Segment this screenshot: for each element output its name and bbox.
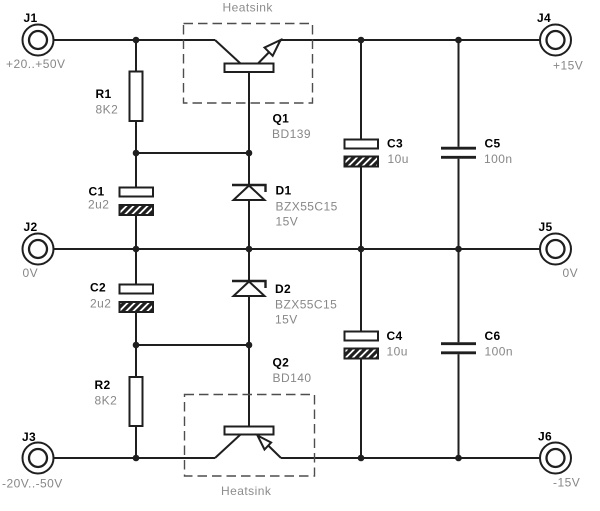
wire C2 top lead <box>135 249 137 285</box>
svg-text:J5: J5 <box>539 220 553 234</box>
svg-text:-20V..-50V: -20V..-50V <box>2 477 63 491</box>
svg-text:0V: 0V <box>23 266 39 280</box>
svg-text:Heatsink: Heatsink <box>221 484 272 498</box>
svg-text:C6: C6 <box>485 329 501 343</box>
svg-text:J2: J2 <box>24 220 38 234</box>
svg-text:BD139: BD139 <box>272 127 311 141</box>
svg-text:8K2: 8K2 <box>95 394 118 408</box>
svg-text:2u2: 2u2 <box>88 198 109 212</box>
wire R2 bottom lead <box>135 426 137 458</box>
svg-text:10u: 10u <box>388 152 409 166</box>
svg-text:BZX55C15: BZX55C15 <box>275 298 337 312</box>
connector J4 <box>540 25 571 56</box>
capacitor C5 <box>441 148 476 157</box>
svg-text:+15V: +15V <box>553 59 583 73</box>
svg-text:8K2: 8K2 <box>96 103 119 117</box>
svg-text:J1: J1 <box>24 11 38 25</box>
svg-text:Q2: Q2 <box>273 356 290 370</box>
capacitor C2 <box>120 285 154 313</box>
node junction dots <box>133 37 462 462</box>
connector J1 <box>23 25 54 56</box>
svg-text:J6: J6 <box>538 430 552 444</box>
wire D1 bottom lead <box>248 200 250 249</box>
svg-text:15V: 15V <box>275 313 298 327</box>
wire C5 top lead <box>458 40 460 147</box>
svg-text:BZX55C15: BZX55C15 <box>276 199 338 213</box>
wire link rail R1 to Q1 base <box>136 152 249 154</box>
svg-text:0V: 0V <box>563 266 579 280</box>
svg-text:J3: J3 <box>22 430 36 444</box>
capacitor C4 <box>345 332 379 359</box>
wire C2 bottom lead <box>135 312 137 345</box>
svg-text:D1: D1 <box>276 183 292 197</box>
svg-text:-15V: -15V <box>553 476 580 490</box>
heatsink box bottom <box>185 395 315 477</box>
connector J6 <box>540 443 571 474</box>
wire Q2 base lead <box>248 345 250 427</box>
wire C3 bottom lead <box>360 167 362 250</box>
svg-text:C2: C2 <box>90 281 106 295</box>
capacitor C3 <box>345 140 379 167</box>
wire D2 top lead <box>248 249 250 281</box>
capacitor C1 <box>120 188 154 216</box>
wire C1 bottom lead <box>135 215 137 249</box>
wire D1 top lead <box>248 153 250 185</box>
svg-text:2u2: 2u2 <box>90 297 111 311</box>
resistor R1 <box>130 72 143 122</box>
wire top rail left <box>54 39 216 41</box>
wire link rail R2 to Q2 base <box>136 344 249 346</box>
svg-text:Heatsink: Heatsink <box>223 1 274 15</box>
svg-text:C1: C1 <box>89 185 105 199</box>
svg-text:R2: R2 <box>95 378 111 392</box>
wire C6 bottom lead <box>458 354 460 458</box>
connector J2 <box>23 234 54 265</box>
wire R1 bottom lead <box>135 121 137 153</box>
svg-text:+20..+50V: +20..+50V <box>6 57 65 71</box>
svg-text:C3: C3 <box>387 137 403 151</box>
svg-text:100n: 100n <box>484 152 513 166</box>
wire R1 top lead <box>135 40 137 72</box>
heatsink box top <box>184 24 313 104</box>
svg-text:BD140: BD140 <box>273 371 312 385</box>
wire C5 bottom lead <box>458 159 460 249</box>
svg-text:15V: 15V <box>276 215 299 229</box>
wire C6 top lead <box>458 249 460 342</box>
wire R2 top lead <box>135 345 137 377</box>
wire Q1 base lead <box>248 72 250 153</box>
wire 0V rail <box>54 248 541 250</box>
svg-text:Q1: Q1 <box>273 112 290 126</box>
zener diode D1 <box>232 185 266 200</box>
zener diode D2 <box>232 281 266 296</box>
svg-text:R1: R1 <box>96 87 112 101</box>
svg-text:10u: 10u <box>387 345 408 359</box>
svg-text:C5: C5 <box>485 137 501 151</box>
wire bottom rail right <box>281 457 540 459</box>
wire top rail right <box>281 39 540 41</box>
capacitor C6 <box>441 344 476 353</box>
wire C1 top lead <box>135 153 137 188</box>
svg-text:J4: J4 <box>537 11 551 25</box>
wire C3 top lead <box>360 40 362 140</box>
svg-text:C4: C4 <box>387 329 403 343</box>
transistor Q1 <box>215 40 281 72</box>
wire C4 top lead <box>360 249 362 332</box>
connector J3 <box>23 443 54 474</box>
svg-text:D2: D2 <box>275 282 291 296</box>
wire C4 bottom lead <box>360 359 362 459</box>
connector J5 <box>540 234 571 265</box>
svg-text:100n: 100n <box>485 345 514 359</box>
transistor Q2 <box>215 427 281 459</box>
wire D2 bottom lead <box>248 296 250 345</box>
resistor R2 <box>130 377 143 426</box>
wire bottom rail left <box>54 457 216 459</box>
